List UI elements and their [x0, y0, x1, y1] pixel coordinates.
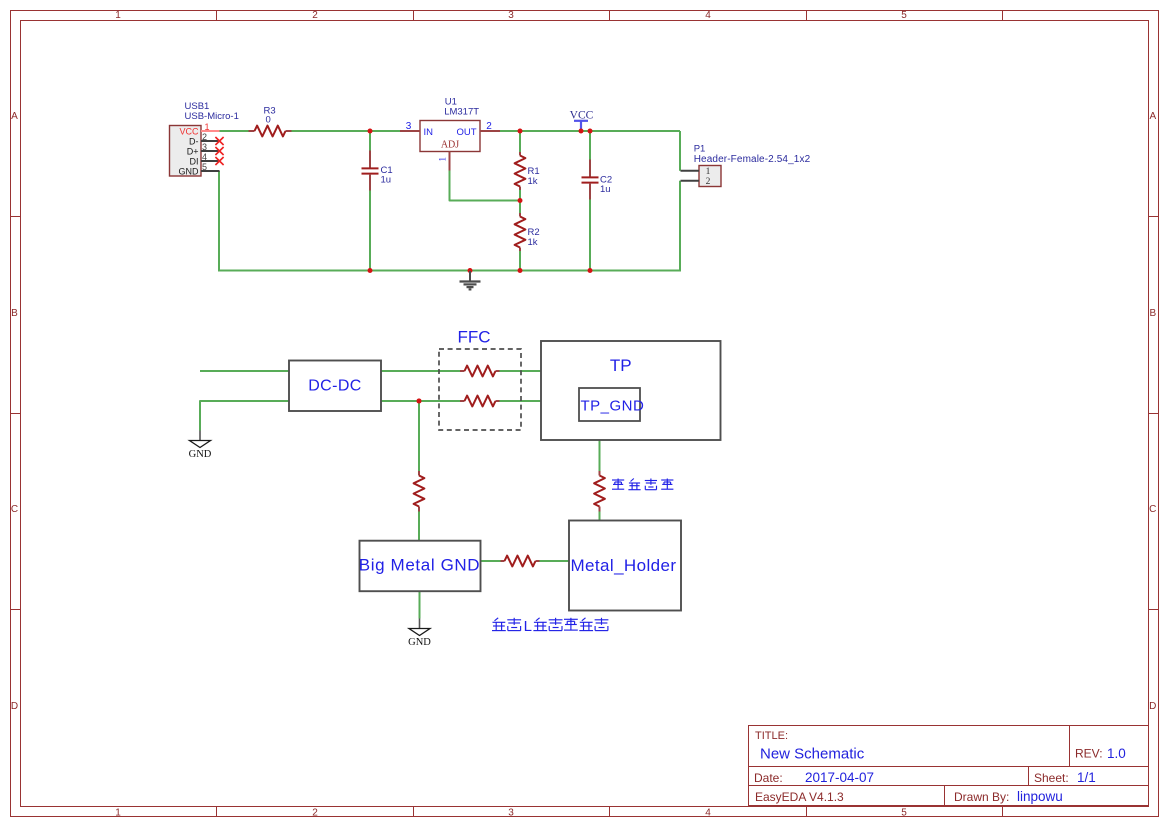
svg-text:Date:: Date: — [754, 771, 783, 785]
svg-text:New Schematic: New Schematic — [760, 746, 865, 763]
svg-text:LM317T: LM317T — [444, 107, 479, 118]
svg-text:B: B — [1149, 308, 1156, 319]
svg-text:5: 5 — [901, 10, 907, 21]
svg-text:1u: 1u — [600, 184, 611, 195]
svg-text:TP: TP — [610, 356, 632, 375]
svg-text:REV:: REV: — [1075, 747, 1103, 761]
svg-text:1.0: 1.0 — [1107, 746, 1126, 761]
svg-text:5: 5 — [901, 807, 907, 818]
svg-text:IN: IN — [424, 127, 434, 138]
svg-text:1: 1 — [438, 157, 448, 162]
svg-text:4: 4 — [202, 152, 207, 162]
svg-text:1: 1 — [115, 10, 121, 21]
svg-text:2: 2 — [202, 132, 207, 142]
svg-text:VCC: VCC — [570, 109, 594, 121]
svg-text:5: 5 — [202, 162, 207, 172]
svg-text:2: 2 — [312, 10, 318, 21]
svg-text:Metal_Holder: Metal_Holder — [571, 556, 677, 575]
svg-text:2: 2 — [486, 121, 492, 132]
svg-text:Drawn By:: Drawn By: — [954, 790, 1009, 804]
svg-text:A: A — [1149, 111, 1156, 122]
svg-text:3: 3 — [202, 142, 207, 152]
svg-text:Sheet:: Sheet: — [1034, 771, 1069, 785]
svg-text:Big Metal GND: Big Metal GND — [359, 556, 480, 575]
svg-text:A: A — [11, 111, 18, 122]
svg-text:1u: 1u — [381, 175, 392, 186]
svg-text:DI: DI — [190, 156, 199, 166]
svg-text:OUT: OUT — [456, 127, 476, 138]
svg-text:1: 1 — [706, 167, 711, 177]
svg-text:L: L — [524, 618, 532, 635]
svg-text:3: 3 — [508, 807, 514, 818]
svg-text:1k: 1k — [528, 237, 538, 248]
svg-text:2: 2 — [312, 807, 318, 818]
svg-text:1/1: 1/1 — [1077, 770, 1096, 785]
svg-text:VCC: VCC — [179, 126, 199, 136]
svg-text:2017-04-07: 2017-04-07 — [805, 770, 874, 785]
svg-text:D+: D+ — [187, 146, 199, 156]
svg-text:C: C — [1149, 504, 1156, 515]
svg-text:DC-DC: DC-DC — [308, 378, 362, 395]
svg-text:0: 0 — [266, 115, 271, 126]
svg-text:EasyEDA V4.1.3: EasyEDA V4.1.3 — [755, 790, 844, 804]
svg-text:GND: GND — [179, 166, 200, 176]
svg-text:TP_GND: TP_GND — [581, 398, 645, 415]
svg-text:GND: GND — [189, 449, 212, 460]
svg-text:1: 1 — [204, 122, 209, 132]
svg-text:D-: D- — [189, 136, 199, 146]
svg-text:4: 4 — [705, 10, 711, 21]
svg-text:D: D — [1149, 701, 1156, 712]
svg-text:GND: GND — [408, 637, 431, 648]
svg-text:4: 4 — [705, 807, 711, 818]
svg-text:P1: P1 — [694, 144, 706, 155]
svg-text:3: 3 — [508, 10, 514, 21]
svg-text:2: 2 — [706, 177, 711, 187]
svg-text:linpowu: linpowu — [1017, 789, 1063, 804]
svg-text:TITLE:: TITLE: — [755, 730, 788, 742]
svg-text:FFC: FFC — [457, 328, 490, 347]
svg-text:D: D — [11, 701, 18, 712]
svg-text:B: B — [11, 308, 18, 319]
svg-text:ADJ: ADJ — [441, 140, 459, 151]
svg-text:1: 1 — [115, 807, 121, 818]
svg-text:3: 3 — [406, 121, 412, 132]
svg-text:USB-Micro-1: USB-Micro-1 — [185, 111, 239, 122]
svg-text:Header-Female-2.54_1x2: Header-Female-2.54_1x2 — [694, 154, 811, 165]
svg-text:C: C — [11, 504, 18, 515]
svg-text:1k: 1k — [528, 176, 538, 187]
